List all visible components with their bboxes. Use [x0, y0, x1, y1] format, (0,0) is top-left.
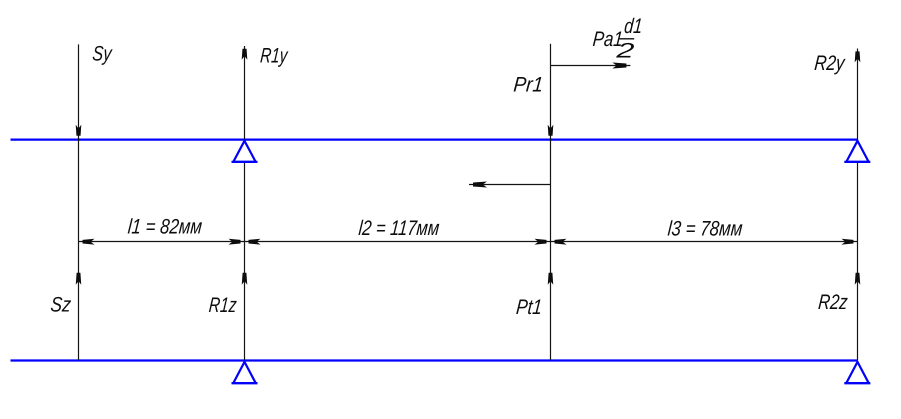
- svg-text:2: 2: [614, 40, 635, 63]
- support triangle: bearing 2, bottom beam: [846, 362, 868, 383]
- force arrow axial (horizontal, leftward, below top beam): [469, 182, 551, 188]
- dimension arrowhead left of R1 (points right): [229, 239, 241, 245]
- dimension arrowhead right of P (points left): [555, 239, 567, 245]
- svg-text:R1y: R1y: [259, 45, 289, 68]
- svg-text:d1: d1: [623, 15, 643, 38]
- force arrowhead Pr1 (down, onto top beam): [548, 125, 554, 136]
- svg-text:R1z: R1z: [208, 294, 238, 317]
- svg-text:R2y: R2y: [813, 52, 846, 75]
- dimension arrowhead at R2 end (points right): [842, 239, 854, 245]
- svg-text:Sz: Sz: [50, 293, 73, 316]
- svg-text:Pr1: Pr1: [513, 74, 545, 97]
- wire: top shaft beam (y-plane): [11, 138, 858, 140]
- wire: vertical construction line at P (x=550): [550, 44, 552, 360]
- force arrowhead R1y (up, top of line): [242, 49, 248, 60]
- dimension arrowhead right of R1 (points left): [249, 239, 261, 245]
- dimension arrowhead left of P (points right): [535, 239, 547, 245]
- force arrowhead R2z (up, bottom beam): [855, 273, 861, 285]
- wire: vertical construction line at R1 (x=244): [244, 46, 246, 360]
- force arrowhead Sy (down, onto top beam): [76, 125, 82, 136]
- svg-text:Sy: Sy: [92, 43, 114, 66]
- svg-text:R2z: R2z: [817, 291, 849, 314]
- wire: vertical construction line at R2 (x=857): [857, 49, 859, 361]
- svg-text:l1 = 82мм: l1 = 82мм: [127, 215, 203, 238]
- force arrowhead Pt1 (up, bottom beam): [548, 273, 554, 285]
- support triangle: bearing 2, top beam: [846, 141, 868, 162]
- force arrowhead R1z (up, bottom beam): [242, 273, 248, 285]
- svg-text:l2 = 117мм: l2 = 117мм: [358, 217, 441, 240]
- wire: bottom shaft beam (z-plane): [11, 359, 858, 361]
- wire: vertical construction line at S (x=78): [78, 44, 80, 360]
- support triangle: bearing 1, bottom beam: [233, 362, 255, 383]
- fraction bar of d1/2: [619, 38, 635, 40]
- force arrowhead Sz (up, bottom beam): [76, 273, 82, 285]
- svg-text:l3 = 78мм: l3 = 78мм: [667, 218, 744, 241]
- support triangle: bearing 1, top beam: [233, 141, 255, 162]
- force arrowhead R2y (up, top of line): [855, 51, 861, 62]
- dimension arrowhead at S end (points left): [83, 239, 95, 245]
- force arrow Pa1*d1/2 (horizontal, rightward): [551, 63, 631, 69]
- dimension line (l1+l2+l3): [79, 241, 858, 243]
- svg-text:Pt1: Pt1: [515, 296, 543, 319]
